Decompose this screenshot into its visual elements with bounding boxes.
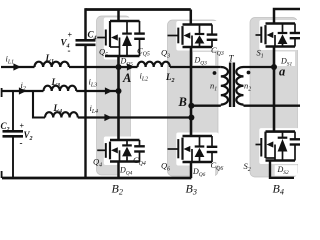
node B junction dot (wire L4) bbox=[188, 115, 194, 121]
mosfet Q5 source stub bbox=[110, 46, 120, 48]
mosfet Q4 body arrow bbox=[111, 147, 118, 153]
mosfet Q6 top node bar bbox=[183, 135, 213, 138]
leg B4 mid vertical (node a line) bbox=[273, 47, 276, 132]
wire L1 to node A bbox=[69, 66, 119, 68]
capacitor C4 bbox=[76, 39, 96, 42]
diode D_Q3 anode lead bbox=[199, 44, 201, 48]
leg B2 mid vertical (node A line) bbox=[117, 56, 120, 140]
wire n2 top to node a bbox=[244, 66, 275, 68]
diode D_Q5 lead bbox=[126, 21, 128, 34]
mosfet Q6 source tail bbox=[191, 149, 193, 162]
capacitor C2 top lead bbox=[12, 91, 14, 131]
mosfet Q6 gate lead bbox=[168, 148, 179, 150]
mosfet Q3 bottom node bar bbox=[183, 46, 213, 49]
svg-text:A: A bbox=[122, 71, 131, 85]
wire n2 bottom to right edge bbox=[244, 105, 301, 107]
leg B2 source wire to bottom rail bbox=[117, 162, 120, 179]
white backing Q3 cell bbox=[176, 21, 218, 51]
diode D_Q6 triangle bbox=[195, 148, 205, 157]
inductor L2 bbox=[138, 62, 170, 67]
mosfet S2 gate bar bbox=[260, 138, 262, 157]
left edge stub lower bbox=[1, 171, 3, 178]
leg B2 highlight box bbox=[97, 16, 131, 175]
leg B3 mid vertical (node B line) bbox=[190, 47, 193, 136]
capacitor C_Q3 plates bbox=[207, 33, 218, 35]
mosfet Q5 gate bar bbox=[105, 30, 107, 46]
capacitor C2 bottom lead bbox=[12, 136, 14, 178]
mosfet Q6 bottom node bar bbox=[183, 161, 213, 164]
capacitor C_Q3 bottom lead bbox=[211, 40, 213, 47]
mosfet S1 gate bar bbox=[260, 27, 262, 43]
node B junction dot bbox=[188, 103, 194, 109]
mosfet Q4 gate lead bbox=[97, 149, 106, 151]
capacitor C_Q5 bottom lead bbox=[139, 39, 141, 56]
wire L3 to node A bbox=[76, 90, 118, 92]
mosfet S1 gate lead bbox=[256, 34, 262, 36]
leg B3 highlight box bbox=[168, 20, 219, 176]
mosfet Q3 gate bar bbox=[177, 28, 179, 44]
diode D_Q4 cathode bar bbox=[122, 144, 132, 146]
white backing Q6 cell bbox=[176, 133, 218, 166]
diode D_Q4 triangle bbox=[122, 147, 132, 157]
mosfet Q4 channel bar bbox=[109, 142, 111, 160]
top rail wire bbox=[86, 8, 191, 11]
diode D_S1 lead bbox=[282, 24, 284, 34]
transformer T primary winding n1 bbox=[221, 67, 228, 105]
white label box D_Q3 bbox=[193, 52, 215, 65]
mosfet Q6 body arrow bbox=[184, 146, 191, 152]
diode D_S2 anode lead bbox=[282, 152, 284, 161]
wire L4 to node B bbox=[78, 116, 192, 118]
capacitor C_Q4 top lead bbox=[139, 140, 141, 146]
mosfet Q4 bottom node bar bbox=[110, 160, 140, 163]
current arrow i_L4 bbox=[104, 114, 112, 121]
white label box D_Q4 bbox=[118, 164, 142, 176]
mosfet Q5 gate lead bbox=[97, 37, 106, 39]
capacitor C_S2 bottom lead bbox=[294, 145, 296, 161]
capacitor C_Q5 plates bbox=[134, 32, 145, 34]
mosfet Q3 top node bar bbox=[183, 23, 213, 26]
transformer secondary phase dot bbox=[247, 71, 251, 75]
diode D_Q3 lead bbox=[199, 25, 201, 35]
left frame vertical lower (C4 to bottom rail) bbox=[84, 45, 86, 178]
current arrow i_L2 bbox=[127, 63, 135, 70]
diode D_S2 triangle bbox=[278, 139, 288, 152]
mosfet Q5 top node bar bbox=[110, 20, 140, 23]
diode D_S2 lead bbox=[282, 132, 284, 138]
mosfet S2 source tail bbox=[274, 145, 276, 161]
diode D_Q6 lead bbox=[199, 136, 201, 147]
mosfet Q5 source tail bbox=[119, 38, 121, 57]
capacitor C_Q6 plates bbox=[207, 146, 218, 148]
diode D_Q3 cathode bar bbox=[195, 33, 205, 35]
capacitor C_Q6 bottom lead bbox=[211, 152, 213, 162]
wire node B to transformer primary bottom bbox=[191, 105, 220, 107]
mosfet Q5 bottom node bar bbox=[105, 55, 140, 58]
leg B3 drain wire from top rail bbox=[190, 10, 193, 25]
mosfet S2 bottom node bar bbox=[266, 159, 296, 162]
svg-text:-: - bbox=[20, 138, 23, 148]
capacitor C2 bbox=[3, 130, 24, 133]
transformer primary phase dot bbox=[213, 71, 217, 75]
mosfet Q6 channel bar bbox=[181, 138, 183, 160]
node A junction dot (wire2) bbox=[116, 88, 122, 94]
capacitor C_S2 plates bbox=[290, 138, 301, 140]
inductor L3 bbox=[44, 86, 77, 91]
leg B3 source wire to bottom rail bbox=[190, 162, 193, 178]
capacitor C_S1 plates bbox=[290, 32, 301, 34]
capacitor C_Q3 top lead bbox=[211, 25, 213, 35]
node a junction dot bbox=[271, 64, 277, 70]
diode D_Q6 anode lead bbox=[199, 157, 201, 162]
svg-text:-: - bbox=[68, 46, 71, 56]
white label box D_S1 bbox=[275, 52, 295, 67]
mosfet S1 channel bar bbox=[264, 25, 266, 44]
transformer T secondary winding n2 bbox=[236, 67, 243, 105]
diode D_Q5 cathode bar bbox=[122, 32, 132, 34]
white label box D_S2 bbox=[275, 165, 298, 176]
diode D_S2 cathode bar bbox=[278, 137, 288, 139]
mosfet S1 bottom node bar bbox=[266, 45, 296, 48]
mosfet S1 top node bar bbox=[266, 22, 296, 25]
diode D_S1 anode lead bbox=[282, 44, 284, 47]
node A junction dot (wire1) bbox=[116, 64, 122, 70]
svg-text:a: a bbox=[279, 65, 285, 79]
wire branch down to L4 bbox=[33, 91, 45, 118]
white backing Q4 cell bbox=[104, 137, 146, 166]
current arrow i_L3 bbox=[105, 87, 113, 94]
mosfet S2 top node bar bbox=[266, 130, 296, 133]
mosfet Q3 source tail bbox=[191, 36, 193, 48]
mosfet S2 body arrow bbox=[267, 141, 274, 147]
inductor L4 bbox=[45, 112, 78, 117]
capacitor C_S1 top lead bbox=[294, 24, 296, 34]
diode D_Q5 triangle bbox=[122, 35, 132, 46]
white label box D_Q6 bbox=[192, 165, 215, 176]
diode D_S1 triangle bbox=[278, 34, 288, 44]
mosfet Q4 gate bar bbox=[105, 143, 107, 158]
mosfet Q5 body arrow bbox=[111, 34, 118, 40]
diode D_Q6 cathode bar bbox=[195, 145, 205, 147]
mosfet S1 body arrow bbox=[267, 32, 274, 38]
mosfet Q5 channel bar bbox=[109, 28, 111, 47]
wire node A to L2 bbox=[119, 66, 138, 68]
white backing S2 cell bbox=[259, 128, 300, 164]
white backing Q5 cell bbox=[104, 18, 146, 60]
svg-text:B: B bbox=[178, 95, 187, 109]
capacitor C_S2 top lead bbox=[294, 132, 296, 140]
mosfet Q6 gate bar bbox=[177, 139, 179, 158]
svg-text:+: + bbox=[68, 31, 73, 40]
mosfet Q4 source tail bbox=[119, 150, 121, 161]
capacitor C_Q4 bottom lead bbox=[139, 152, 141, 162]
leg B4 highlight box bbox=[250, 18, 298, 178]
mosfet Q4 top node bar bbox=[110, 139, 140, 142]
mosfet S2 drain stub bbox=[264, 132, 266, 137]
current arrow i_L1 bbox=[13, 63, 21, 70]
white backing S1 cell bbox=[259, 20, 300, 50]
white label box D_Q5 bbox=[119, 57, 142, 66]
diode D_S1 cathode bar bbox=[278, 32, 288, 34]
wire input line 1 bbox=[1, 66, 35, 68]
diode D_Q3 triangle bbox=[195, 35, 205, 43]
transformer T core bars bbox=[229, 63, 232, 108]
leg B2 drain wire from top rail bbox=[117, 10, 120, 22]
mosfet S2 channel bar bbox=[264, 137, 266, 159]
wire S1 drain to top right edge bbox=[274, 9, 300, 24]
diode D_Q4 anode lead bbox=[126, 156, 128, 161]
mosfet Q3 gate lead bbox=[168, 35, 179, 37]
capacitor C_Q5 top lead bbox=[139, 21, 141, 34]
mosfet Q5 drain stub bbox=[109, 21, 111, 28]
capacitor C_S1 bottom lead bbox=[294, 38, 296, 46]
leg B4 source wire to bottom rail bbox=[270, 161, 294, 178]
mosfet Q3 channel bar bbox=[181, 26, 183, 45]
left frame vertical upper (to C4) bbox=[84, 8, 87, 40]
capacitor C_Q6 top lead bbox=[211, 136, 213, 147]
left edge stub upper bbox=[1, 88, 3, 97]
capacitor C_Q4 plates bbox=[134, 145, 145, 147]
wire L2 to transformer primary bbox=[170, 66, 221, 68]
current arrow i_2 bbox=[19, 87, 27, 94]
diode D_Q4 lead bbox=[126, 140, 128, 145]
wire input line 2 bbox=[1, 90, 44, 92]
mosfet S2 source stub bbox=[266, 157, 276, 159]
mosfet Q3 body arrow bbox=[184, 32, 191, 38]
inductor L1 bbox=[35, 62, 69, 67]
mosfet S1 source tail bbox=[274, 35, 276, 47]
mosfet S2 gate lead bbox=[256, 144, 262, 146]
diode D_Q5 anode lead bbox=[126, 46, 128, 56]
bottom rail wire (primary) bbox=[2, 177, 191, 180]
